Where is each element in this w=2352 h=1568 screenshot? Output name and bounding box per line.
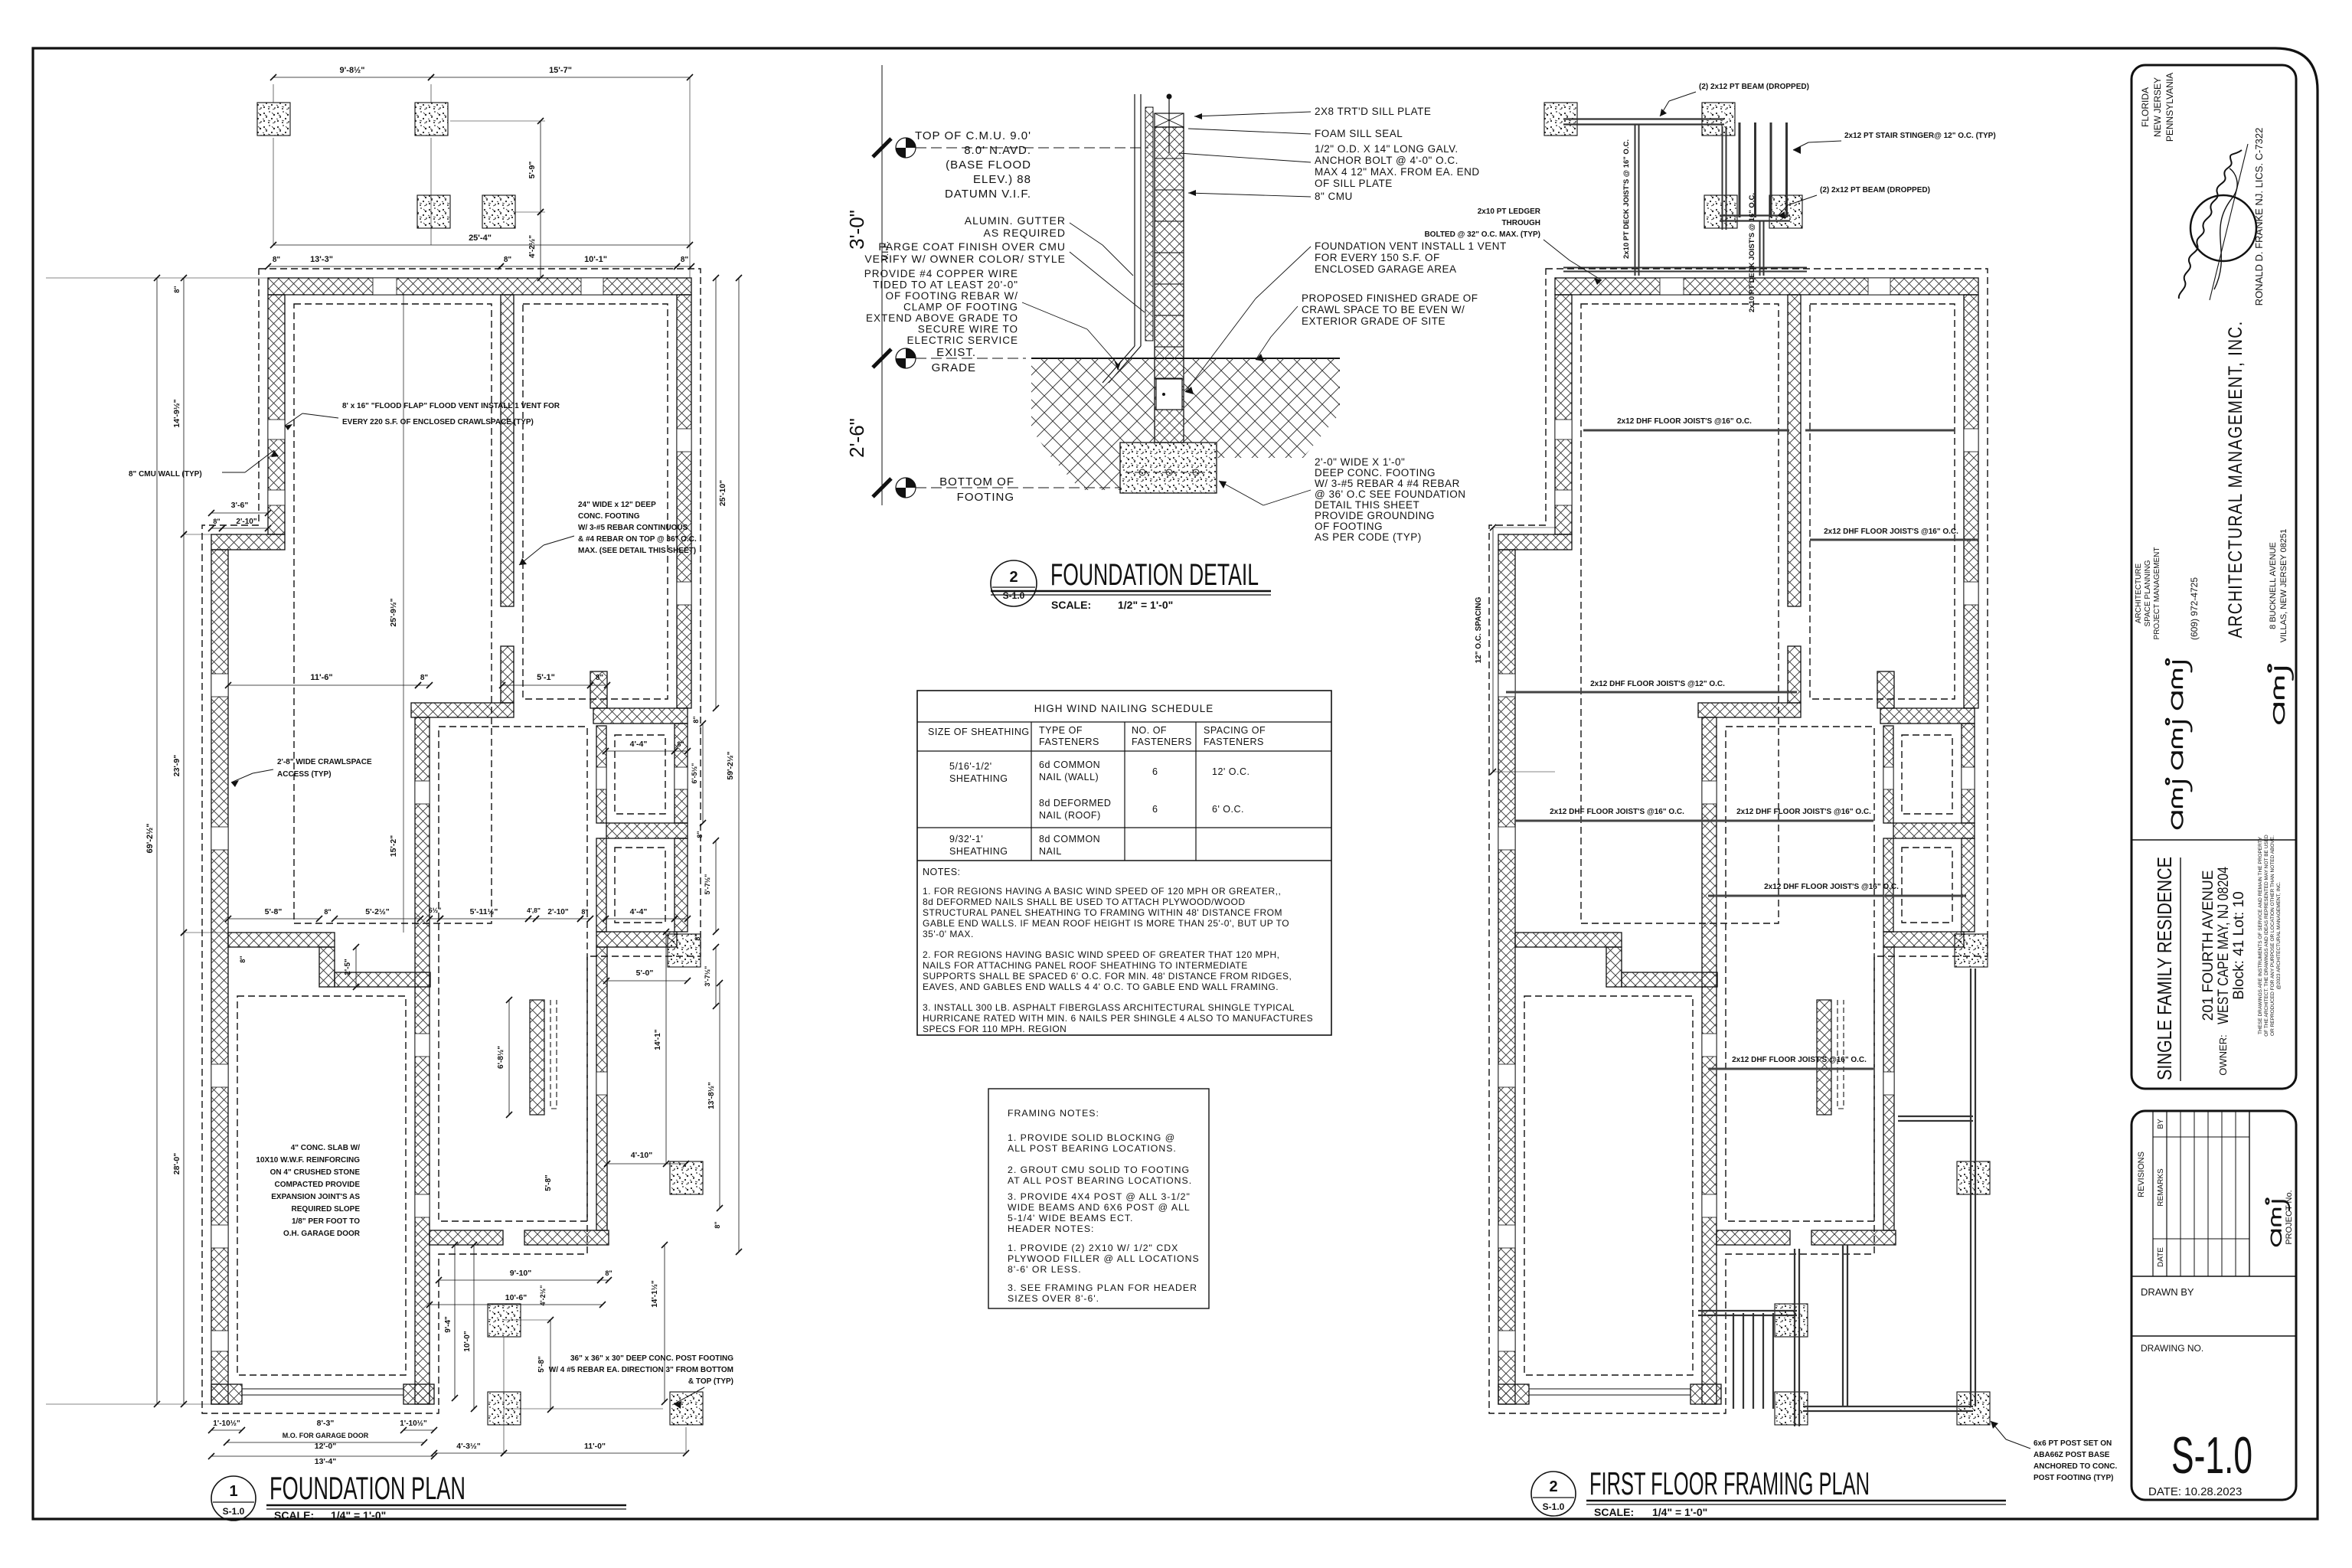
svg-text:8": 8" xyxy=(596,674,604,682)
svg-text:23'-9": 23'-9" xyxy=(172,755,181,777)
svg-text:8d DEFORMED NAILS SHALL BE USE: 8d DEFORMED NAILS SHALL BE USED TO ATTAC… xyxy=(923,897,1246,907)
svg-text:4" CONC. SLAB W/: 4" CONC. SLAB W/ xyxy=(291,1144,361,1152)
svg-text:REVISIONS: REVISIONS xyxy=(2137,1151,2146,1197)
svg-text:W/ 3-#5 REBAR CONTINUOUS: W/ 3-#5 REBAR CONTINUOUS xyxy=(578,524,688,532)
shared plan walls group xyxy=(202,103,703,1425)
svg-text:BOLTED @ 32" O.C. MAX. (TYP): BOLTED @ 32" O.C. MAX. (TYP) xyxy=(1424,230,1540,239)
svg-text:SHEATHING: SHEATHING xyxy=(949,773,1008,784)
svg-text:PROVIDE GROUNDING: PROVIDE GROUNDING xyxy=(1315,510,1435,521)
svg-text:WIDE BEAMS AND 6X6 POST @ ALL: WIDE BEAMS AND 6X6 POST @ ALL xyxy=(1008,1202,1191,1213)
svg-text:ARCHITECTURAL MANAGEMENT, IN: ARCHITECTURAL MANAGEMENT, INC. xyxy=(2225,321,2246,639)
svg-text:PENNSYLVANIA: PENNSYLVANIA xyxy=(2164,73,2175,142)
svg-text:S-1.0: S-1.0 xyxy=(2171,1426,2252,1485)
svg-text:1/8" PER FOOT TO: 1/8" PER FOOT TO xyxy=(292,1217,360,1226)
svg-text:3. INSTALL 300 LB. ASPHALT FIB: 3. INSTALL 300 LB. ASPHALT FIBERGLASS AR… xyxy=(923,1002,1295,1013)
svg-text:8": 8" xyxy=(213,518,220,525)
svg-text:EAVES, AND GABLES END WALLS 4: EAVES, AND GABLES END WALLS 4 4' O.C. TO… xyxy=(923,982,1279,992)
svg-text:FRAMING NOTES:: FRAMING NOTES: xyxy=(1008,1108,1099,1119)
svg-text:5'-0": 5'-0" xyxy=(636,969,654,978)
svg-text:4'-4": 4'-4" xyxy=(630,907,648,916)
svg-text:CRAWL SPACE TO BE EVEN W/: CRAWL SPACE TO BE EVEN W/ xyxy=(1302,304,1465,315)
svg-text:AS REQUIRED: AS REQUIRED xyxy=(984,227,1066,239)
svg-text:DRAWING NO.: DRAWING NO. xyxy=(2141,1343,2203,1354)
svg-text:MAX. (SEE DETAIL THIS SHEET): MAX. (SEE DETAIL THIS SHEET) xyxy=(578,547,696,555)
svg-text:ALUMIN. GUTTER: ALUMIN. GUTTER xyxy=(965,214,1066,227)
svg-text:VERIFY W/ OWNER COLOR/ STYLE: VERIFY W/ OWNER COLOR/ STYLE xyxy=(864,253,1066,265)
title block upper xyxy=(2131,65,2296,1089)
svg-text:ENCLOSED GARAGE AREA: ENCLOSED GARAGE AREA xyxy=(1315,263,1457,275)
framing labels xyxy=(1424,83,2117,1482)
svg-text:EXIST.: EXIST. xyxy=(936,346,976,359)
svg-text:8": 8" xyxy=(273,256,281,264)
svg-text:& #4 REBAR ON TOP @ 36" O.C.: & #4 REBAR ON TOP @ 36" O.C. xyxy=(578,535,697,544)
svg-text:2x12 DHF FLOOR JOIST'S @16" O.: 2x12 DHF FLOOR JOIST'S @16" O.C. xyxy=(1736,808,1871,816)
svg-text:1. PROVIDE (2) 2X10 W/ 1/2" CD: 1. PROVIDE (2) 2X10 W/ 1/2" CDX xyxy=(1008,1243,1178,1253)
svg-text:8": 8" xyxy=(504,256,512,264)
svg-text:2x10 PT DECK JOIST'S @ 16" O.C: 2x10 PT DECK JOIST'S @ 16" O.C. xyxy=(1748,193,1756,312)
svg-text:8d COMMON: 8d COMMON xyxy=(1039,834,1100,844)
svg-text:1'-10½": 1'-10½" xyxy=(400,1419,427,1428)
svg-text:9/32'-1': 9/32'-1' xyxy=(949,834,983,844)
svg-text:2x12 DHF FLOOR JOIST'S @16" O.: 2x12 DHF FLOOR JOIST'S @16" O.C. xyxy=(1617,417,1752,426)
svg-text:24" WIDE x 12" DEEP: 24" WIDE x 12" DEEP xyxy=(578,501,656,509)
svg-text:8d DEFORMED: 8d DEFORMED xyxy=(1039,798,1111,808)
svg-text:TYPE OF: TYPE OF xyxy=(1039,725,1083,736)
foundation detail title xyxy=(991,558,1271,611)
svg-text:TIDED TO AT LEAST 20'-0": TIDED TO AT LEAST 20'-0" xyxy=(873,279,1018,291)
svg-text:10'-1": 10'-1" xyxy=(584,255,607,264)
svg-text:8.0' N.AVD.: 8.0' N.AVD. xyxy=(964,144,1031,157)
svg-text:(BASE FLOOD: (BASE FLOOD xyxy=(946,158,1031,171)
svg-text:FIRST FLOOR FRAMING PLAN: FIRST FLOOR FRAMING PLAN xyxy=(1589,1465,1870,1501)
svg-text:& TOP (TYP): & TOP (TYP) xyxy=(688,1377,733,1386)
svg-text:4'-10": 4'-10" xyxy=(631,1151,653,1160)
svg-text:2x10 PT LEDGER: 2x10 PT LEDGER xyxy=(1478,207,1541,216)
svg-text:4'-2½": 4'-2½" xyxy=(528,235,537,258)
svg-text:CLAMP OF FOOTING: CLAMP OF FOOTING xyxy=(903,302,1018,313)
svg-text:2'-5": 2'-5" xyxy=(344,959,352,975)
svg-text:6½": 6½" xyxy=(429,906,442,914)
framing joists xyxy=(1506,430,1978,1069)
svg-text:10'-6": 10'-6" xyxy=(505,1293,528,1302)
svg-text:6'-8½": 6'-8½" xyxy=(497,1046,505,1069)
svg-text:SIZES OVER 8'-6'.: SIZES OVER 8'-6'. xyxy=(1008,1293,1099,1304)
svg-text:12' O.C.: 12' O.C. xyxy=(1212,766,1249,777)
svg-text:DATUMN V.I.F.: DATUMN V.I.F. xyxy=(945,188,1031,201)
svg-text:FOUNDATION PLAN: FOUNDATION PLAN xyxy=(269,1470,465,1506)
svg-text:9'-10": 9'-10" xyxy=(510,1269,532,1278)
svg-text:3'-6": 3'-6" xyxy=(231,501,249,510)
svg-text:5'-8": 5'-8" xyxy=(265,907,283,916)
svg-text:2x12 DHF FLOOR JOIST'S @16" O.: 2x12 DHF FLOOR JOIST'S @16" O.C. xyxy=(1732,1056,1867,1064)
svg-text:69'-2½": 69'-2½" xyxy=(145,823,155,853)
svg-text:6: 6 xyxy=(1152,804,1158,815)
svg-text:AS PER CODE (TYP): AS PER CODE (TYP) xyxy=(1315,531,1422,543)
svg-text:5'-8": 5'-8" xyxy=(544,1174,553,1191)
svg-text:FOR EVERY 150 S.F. OF: FOR EVERY 150 S.F. OF xyxy=(1315,252,1440,263)
svg-text:1/4" = 1'-0": 1/4" = 1'-0" xyxy=(1652,1506,1707,1518)
svg-text:ARCHITECTURE: ARCHITECTURE xyxy=(2135,563,2143,624)
svg-text:8": 8" xyxy=(714,1221,721,1228)
foundation dim labels xyxy=(145,66,735,1466)
svg-text:8 BUCKNELL AVENUE: 8 BUCKNELL AVENUE xyxy=(2269,542,2278,629)
svg-text:FOAM SILL SEAL: FOAM SILL SEAL xyxy=(1315,128,1403,139)
svg-text:5/16'-1/2': 5/16'-1/2' xyxy=(949,761,992,772)
svg-text:8": 8" xyxy=(605,1269,612,1277)
svg-text:BOTTOM OF: BOTTOM OF xyxy=(939,475,1014,488)
svg-text:EXTERIOR GRADE OF SITE: EXTERIOR GRADE OF SITE xyxy=(1302,315,1445,327)
svg-text:3'-7½": 3'-7½" xyxy=(704,966,711,987)
svg-text:ACCESS (TYP): ACCESS (TYP) xyxy=(277,770,332,779)
svg-text:12" O.C. SPACING: 12" O.C. SPACING xyxy=(1475,596,1483,663)
svg-text:FOUNDATION DETAIL: FOUNDATION DETAIL xyxy=(1050,558,1259,592)
svg-text:STRUCTURAL PANEL SHEATHING TO: STRUCTURAL PANEL SHEATHING TO FRAMING WI… xyxy=(923,907,1282,918)
svg-text:2'-0" WIDE X 1'-0": 2'-0" WIDE X 1'-0" xyxy=(1315,456,1405,468)
svg-text:25'-4": 25'-4" xyxy=(469,234,492,243)
svg-text:4',8": 4',8" xyxy=(527,906,541,914)
svg-text:PLYWOOD FILLER @ ALL LOCATIONS: PLYWOOD FILLER @ ALL LOCATIONS xyxy=(1008,1253,1200,1264)
svg-text:NEW JERSEY: NEW JERSEY xyxy=(2152,77,2163,137)
svg-text:13'-8½": 13'-8½" xyxy=(707,1082,716,1109)
svg-text:AT ALL POST BEARING LOCATIONS.: AT ALL POST BEARING LOCATIONS. xyxy=(1008,1175,1192,1186)
svg-text:2'-10": 2'-10" xyxy=(547,908,568,916)
svg-text:W/ 4 #5 REBAR EA. DIRECTION 3": W/ 4 #5 REBAR EA. DIRECTION 3" FROM BOTT… xyxy=(549,1366,733,1374)
svg-text:9'-8½": 9'-8½" xyxy=(340,66,365,75)
svg-text:REQUIRED SLOPE: REQUIRED SLOPE xyxy=(292,1205,361,1214)
svg-text:2x12 DHF FLOOR JOIST'S @16" O.: 2x12 DHF FLOOR JOIST'S @16" O.C. xyxy=(1824,528,1958,536)
svg-text:6: 6 xyxy=(1152,766,1158,777)
svg-text:HEADER NOTES:: HEADER NOTES: xyxy=(1008,1223,1094,1234)
svg-text:PARGE COAT FINISH OVER CMU: PARGE COAT FINISH OVER CMU xyxy=(878,240,1066,253)
svg-text:8'-6' OR LESS.: 8'-6' OR LESS. xyxy=(1008,1264,1082,1275)
svg-text:FASTENERS: FASTENERS xyxy=(1039,737,1099,747)
svg-text:2x12 DHF FLOOR JOIST'S @12" O.: 2x12 DHF FLOOR JOIST'S @12" O.C. xyxy=(1590,680,1725,688)
svg-text:COMPACTED PROVIDE: COMPACTED PROVIDE xyxy=(275,1181,361,1189)
svg-text:FOUNDATION VENT INSTALL 1 VENT: FOUNDATION VENT INSTALL 1 VENT xyxy=(1315,240,1507,252)
svg-text:OF FOOTING: OF FOOTING xyxy=(1315,521,1383,532)
svg-text:36" x 36" x 30" DEEP CONC. POS: 36" x 36" x 30" DEEP CONC. POST FOOTING xyxy=(570,1354,733,1363)
svg-text:SCALE:: SCALE: xyxy=(1594,1506,1634,1518)
svg-text:DEEP CONC. FOOTING: DEEP CONC. FOOTING xyxy=(1315,467,1436,479)
svg-text:DETAIL THIS SHEET: DETAIL THIS SHEET xyxy=(1315,499,1419,511)
svg-text:6' O.C.: 6' O.C. xyxy=(1212,804,1244,815)
svg-text:EXTEND ABOVE GRADE TO: EXTEND ABOVE GRADE TO xyxy=(866,312,1018,324)
svg-text:1: 1 xyxy=(229,1483,237,1500)
svg-text:OWNER:: OWNER: xyxy=(2217,1034,2229,1075)
foundation detail xyxy=(845,65,1507,543)
svg-text:ANCHORED TO CONC.: ANCHORED TO CONC. xyxy=(2033,1462,2117,1471)
svg-text:5'-2½": 5'-2½" xyxy=(365,907,389,916)
svg-text:15'-7": 15'-7" xyxy=(549,66,572,75)
svg-text:8": 8" xyxy=(692,716,700,723)
svg-text:3. SEE FRAMING PLAN FOR HEADER: 3. SEE FRAMING PLAN FOR HEADER xyxy=(1008,1282,1197,1293)
svg-text:NAIL (WALL): NAIL (WALL) xyxy=(1039,772,1099,782)
svg-text:1/2" = 1'-0": 1/2" = 1'-0" xyxy=(1118,599,1173,611)
foundation plan annotations xyxy=(129,402,733,1409)
svg-text:8' x 16" "FLOOD FLAP" FLOOD VE: 8' x 16" "FLOOD FLAP" FLOOD VENT INSTALL… xyxy=(342,402,560,410)
svg-text:NOTES:: NOTES: xyxy=(923,867,961,877)
svg-text:8": 8" xyxy=(581,908,588,916)
svg-text:EVERY 220 S.F. OF ENCLOSED CRA: EVERY 220 S.F. OF ENCLOSED CRAWLSPACE (T… xyxy=(342,418,534,426)
svg-text:2x10 PT DECK JOIST'S @ 16" O.C: 2x10 PT DECK JOIST'S @ 16" O.C. xyxy=(1622,139,1631,259)
svg-text:@ 36' O.C SEE FOUNDATION: @ 36' O.C SEE FOUNDATION xyxy=(1315,488,1466,500)
svg-text:ANCHOR BOLT @ 4'-0" O.C.: ANCHOR BOLT @ 4'-0" O.C. xyxy=(1315,155,1459,166)
svg-text:13'-4": 13'-4" xyxy=(315,1457,337,1466)
svg-text:FLORIDA: FLORIDA xyxy=(2140,87,2151,127)
svg-text:1. FOR REGIONS HAVING A BASIC: 1. FOR REGIONS HAVING A BASIC WIND SPEED… xyxy=(923,886,1281,897)
svg-text:11'-0": 11'-0" xyxy=(584,1442,606,1451)
svg-text:PROVIDE #4 COPPER WIRE: PROVIDE #4 COPPER WIRE xyxy=(864,268,1018,279)
svg-text:FOOTING: FOOTING xyxy=(957,491,1014,504)
svg-text:14'-1": 14'-1" xyxy=(654,1029,662,1050)
svg-text:ON 4" CRUSHED STONE: ON 4" CRUSHED STONE xyxy=(270,1168,361,1177)
svg-text:5'-1": 5'-1" xyxy=(537,673,555,682)
svg-text:@2023 ARCHITECTURAL MANAGEMENT: @2023 ARCHITECTURAL MANAGEMENT, INC. xyxy=(2276,881,2282,989)
svg-text:NAIL: NAIL xyxy=(1039,846,1062,857)
svg-text:1/2" O.D. X 14" LONG GALV.: 1/2" O.D. X 14" LONG GALV. xyxy=(1315,143,1459,155)
svg-text:10'-0": 10'-0" xyxy=(463,1331,472,1351)
svg-text:2'-10": 2'-10" xyxy=(236,518,256,526)
svg-text:SCALE:: SCALE: xyxy=(274,1509,314,1521)
svg-text:PROJECT No.: PROJECT No. xyxy=(2285,1190,2294,1244)
svg-text:2x12 PT STAIR STINGER@ 12" O.C: 2x12 PT STAIR STINGER@ 12" O.C. (TYP) xyxy=(1844,132,1996,140)
svg-text:5'-7½": 5'-7½" xyxy=(704,874,711,895)
svg-text:EXPANSION JOINT'S AS: EXPANSION JOINT'S AS xyxy=(271,1193,360,1201)
svg-text:1'-10½": 1'-10½" xyxy=(213,1419,240,1428)
svg-text:8": 8" xyxy=(324,908,331,916)
svg-text:DATE: 10.28.2023: DATE: 10.28.2023 xyxy=(2148,1485,2242,1498)
svg-text:8": 8" xyxy=(694,933,701,940)
high wind nailing schedule table xyxy=(917,691,1331,1035)
svg-text:THROUGH: THROUGH xyxy=(1501,219,1540,227)
amj logos xyxy=(2166,659,2192,708)
svg-text:FASTENERS: FASTENERS xyxy=(1132,737,1192,747)
svg-text:OR REPRODUCED FOR ANY PURPOSE: OR REPRODUCED FOR ANY PURPOSE OR LOCATIO… xyxy=(2270,835,2275,1036)
svg-text:SPECS FOR 110 MPH. REGION: SPECS FOR 110 MPH. REGION xyxy=(923,1024,1067,1034)
svg-text:8": 8" xyxy=(420,674,429,682)
svg-text:ALL POST BEARING LOCATIONS.: ALL POST BEARING LOCATIONS. xyxy=(1008,1143,1177,1154)
svg-text:12'-0": 12'-0" xyxy=(315,1442,337,1451)
svg-text:8": 8" xyxy=(681,256,689,264)
svg-text:6'-5½": 6'-5½" xyxy=(691,763,698,784)
svg-text:W/ 3-#5 REBAR 4 #4 REBAR: W/ 3-#5 REBAR 4 #4 REBAR xyxy=(1315,478,1460,489)
svg-text:4'-4": 4'-4" xyxy=(630,740,648,749)
svg-text:REMARKS: REMARKS xyxy=(2157,1168,2165,1207)
svg-text:BY: BY xyxy=(2157,1119,2165,1129)
svg-text:S-1.0: S-1.0 xyxy=(223,1506,245,1517)
svg-text:11'-6": 11'-6" xyxy=(310,673,332,682)
svg-text:ELECTRIC SERVICE: ELECTRIC SERVICE xyxy=(906,335,1018,346)
svg-text:SHEATHING: SHEATHING xyxy=(949,846,1008,857)
svg-text:ABA66Z POST BASE: ABA66Z POST BASE xyxy=(2033,1451,2110,1459)
title block lower (revisions) xyxy=(2131,1111,2296,1500)
svg-text:OF SILL PLATE: OF SILL PLATE xyxy=(1315,178,1393,189)
title block project section xyxy=(2131,835,2296,1081)
svg-text:THESE DRAWINGS ARE INSTRUMENTS: THESE DRAWINGS ARE INSTRUMENTS OF SERVIC… xyxy=(2258,836,2263,1034)
framing plan walls (reuse) xyxy=(1489,103,1990,1425)
svg-text:2. FOR REGIONS HAVING BASIC WI: 2. FOR REGIONS HAVING BASIC WIND SPEED O… xyxy=(923,949,1279,960)
svg-text:59'-2½": 59'-2½" xyxy=(726,751,735,779)
svg-text:8": 8" xyxy=(239,955,247,962)
svg-text:8": 8" xyxy=(696,831,704,838)
framing notes box xyxy=(988,1089,1209,1308)
svg-text:2x12 DHF FLOOR JOIST'S @16" O.: 2x12 DHF FLOOR JOIST'S @16" O.C. xyxy=(1764,883,1899,891)
svg-text:5'-8": 5'-8" xyxy=(537,1356,546,1373)
svg-text:8": 8" xyxy=(677,740,684,748)
svg-text:PROJECT MANAGEMENT: PROJECT MANAGEMENT xyxy=(2153,547,2161,640)
svg-text:10X10 W.W.F. REINFORCING: 10X10 W.W.F. REINFORCING xyxy=(256,1156,360,1165)
svg-text:2'-8" WIDE CRAWLSPACE: 2'-8" WIDE CRAWLSPACE xyxy=(277,758,372,766)
svg-text:3. PROVIDE 4X4 POST @ ALL 3-1/: 3. PROVIDE 4X4 POST @ ALL 3-1/2" xyxy=(1008,1191,1191,1202)
svg-text:5'-9": 5'-9" xyxy=(528,162,537,179)
svg-text:WEST CAPE MAY, NJ 08204: WEST CAPE MAY, NJ 08204 xyxy=(2216,867,2232,1024)
svg-text:2'-6": 2'-6" xyxy=(845,418,868,458)
svg-text:MAX 4 12" MAX. FROM EA. END: MAX 4 12" MAX. FROM EA. END xyxy=(1315,166,1480,178)
svg-text:M.O. FOR GARAGE DOOR: M.O. FOR GARAGE DOOR xyxy=(283,1432,369,1439)
svg-text:8" CMU: 8" CMU xyxy=(1315,191,1353,202)
svg-text:(609) 972-4725: (609) 972-4725 xyxy=(2189,577,2200,640)
svg-text:2x12 DHF FLOOR JOIST'S @16" O.: 2x12 DHF FLOOR JOIST'S @16" O.C. xyxy=(1550,808,1684,816)
svg-text:2. GROUT CMU SOLID TO FOOTING: 2. GROUT CMU SOLID TO FOOTING xyxy=(1008,1165,1190,1175)
svg-text:(2) 2x12 PT BEAM (DROPPED): (2) 2x12 PT BEAM (DROPPED) xyxy=(1820,186,1930,194)
svg-text:SCALE:: SCALE: xyxy=(1051,599,1091,611)
svg-text:13'-3": 13'-3" xyxy=(310,255,333,264)
svg-text:DATE: DATE xyxy=(2157,1247,2165,1267)
svg-text:8" CMU WALL (TYP): 8" CMU WALL (TYP) xyxy=(129,470,202,479)
svg-text:15'-2": 15'-2" xyxy=(389,835,398,857)
svg-text:RONALD D. FRANKE NJ. LICS. C-7: RONALD D. FRANKE NJ. LICS. C-7322 xyxy=(2253,128,2265,306)
svg-text:1/4" = 1'-0": 1/4" = 1'-0" xyxy=(331,1509,386,1521)
svg-text:201 FOURTH AVENUE: 201 FOURTH AVENUE xyxy=(2200,871,2216,1021)
svg-text:GABLE END WALLS. IF MEAN ROOF: GABLE END WALLS. IF MEAN ROOF HEIGHT IS … xyxy=(923,918,1289,929)
svg-text:(2) 2x12 PT BEAM (DROPPED): (2) 2x12 PT BEAM (DROPPED) xyxy=(1699,83,1809,91)
svg-text:SUPPORTS SHALL BE SPACED 6' O.: SUPPORTS SHALL BE SPACED 6' O.C. FOR MIN… xyxy=(923,971,1292,982)
svg-text:O.H. GARAGE DOOR: O.H. GARAGE DOOR xyxy=(283,1230,361,1238)
svg-text:6x6 PT POST SET ON: 6x6 PT POST SET ON xyxy=(2033,1439,2112,1448)
svg-text:SPACING OF: SPACING OF xyxy=(1204,725,1266,736)
svg-text:Block: 41 Lot: 10: Block: 41 Lot: 10 xyxy=(2231,891,2247,1000)
svg-text:NAIL (ROOF): NAIL (ROOF) xyxy=(1039,810,1101,821)
svg-text:HIGH WIND NAILING SCHEDULE: HIGH WIND NAILING SCHEDULE xyxy=(1034,703,1214,714)
svg-text:HURRICANE RATED WITH MIN. 6 NA: HURRICANE RATED WITH MIN. 6 NAILS PER SH… xyxy=(923,1013,1313,1024)
framing plan title xyxy=(1531,1465,2006,1518)
svg-text:NAILS FOR ATTACHING PANEL ROOF: NAILS FOR ATTACHING PANEL ROOF SHEATHING… xyxy=(923,960,1248,971)
svg-text:5-1/4' WIDE BEAMS ECT.: 5-1/4' WIDE BEAMS ECT. xyxy=(1008,1213,1133,1223)
svg-text:SINGLE FAMILY RESIDENCE: SINGLE FAMILY RESIDENCE xyxy=(2153,857,2176,1080)
svg-text:3'-0": 3'-0" xyxy=(845,210,868,250)
svg-text:OF THE ARCHITECT. THE DRAWINGS: OF THE ARCHITECT. THE DRAWINGS AND IDEAS… xyxy=(2264,835,2269,1037)
svg-text:GRADE: GRADE xyxy=(932,361,976,374)
svg-text:8'-3": 8'-3" xyxy=(317,1419,335,1428)
svg-text:8": 8" xyxy=(173,286,181,292)
foundation plan title xyxy=(211,1470,626,1521)
svg-text:TOP OF C.M.U. 9.0': TOP OF C.M.U. 9.0' xyxy=(915,129,1031,142)
svg-text:4'-3½": 4'-3½" xyxy=(456,1442,480,1451)
svg-text:4'-2½": 4'-2½" xyxy=(539,1285,547,1306)
svg-text:SPACE PLANNING: SPACE PLANNING xyxy=(2144,560,2152,626)
svg-text:VILLAS, NEW JERSEY 08251: VILLAS, NEW JERSEY 08251 xyxy=(2279,529,2288,642)
svg-text:SIZE OF SHEATHING: SIZE OF SHEATHING xyxy=(928,727,1030,737)
svg-text:SECURE WIRE TO: SECURE WIRE TO xyxy=(918,324,1018,335)
svg-text:2: 2 xyxy=(1549,1478,1557,1495)
svg-text:6d COMMON: 6d COMMON xyxy=(1039,759,1100,770)
svg-text:1. PROVIDE SOLID BLOCKING @: 1. PROVIDE SOLID BLOCKING @ xyxy=(1008,1132,1175,1143)
svg-text:2: 2 xyxy=(1009,569,1018,586)
svg-text:NO. OF: NO. OF xyxy=(1132,725,1167,736)
svg-text:FASTENERS: FASTENERS xyxy=(1204,737,1264,747)
svg-text:25'-9½": 25'-9½" xyxy=(389,598,398,626)
svg-text:ELEV.) 88: ELEV.) 88 xyxy=(973,173,1031,186)
svg-text:9'-4": 9'-4" xyxy=(444,1316,452,1333)
svg-text:S-1.0: S-1.0 xyxy=(1543,1501,1565,1512)
framing deck beams xyxy=(1563,119,1975,1427)
svg-text:OF FOOTING REBAR W/: OF FOOTING REBAR W/ xyxy=(886,290,1019,302)
svg-text:5'-11½": 5'-11½" xyxy=(470,907,498,916)
svg-text:14'-9½": 14'-9½" xyxy=(172,399,181,427)
svg-text:CONC. FOOTING: CONC. FOOTING xyxy=(578,512,640,521)
svg-text:POST FOOTING (TYP): POST FOOTING (TYP) xyxy=(2033,1474,2113,1482)
svg-text:2X8 TRT'D SILL PLATE: 2X8 TRT'D SILL PLATE xyxy=(1315,106,1431,117)
svg-text:25'-10": 25'-10" xyxy=(718,480,727,506)
svg-text:DRAWN BY: DRAWN BY xyxy=(2141,1286,2194,1298)
svg-text:28'-0": 28'-0" xyxy=(172,1153,181,1175)
foundation plan dimensions xyxy=(46,74,742,1459)
svg-text:14'-1½": 14'-1½" xyxy=(651,1280,659,1308)
svg-text:PROPOSED FINISHED GRADE OF: PROPOSED FINISHED GRADE OF xyxy=(1302,292,1478,304)
svg-text:35'-0' MAX.: 35'-0' MAX. xyxy=(923,929,974,939)
